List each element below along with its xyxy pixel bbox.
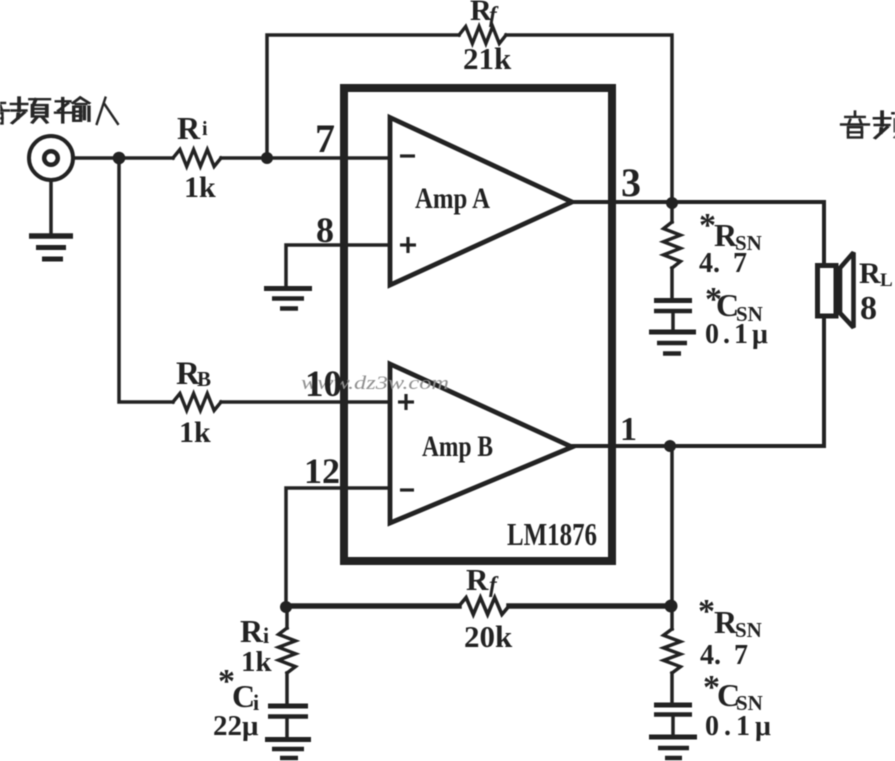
svg-text:3: 3: [621, 160, 641, 205]
svg-text:1: 1: [620, 411, 637, 448]
svg-text:f: f: [489, 572, 499, 597]
svg-text:1k: 1k: [241, 646, 273, 678]
svg-text:20k: 20k: [464, 619, 513, 654]
svg-text:B: B: [197, 367, 211, 391]
svg-text:LM1876: LM1876: [507, 516, 597, 552]
svg-text:4.: 4.: [699, 248, 720, 279]
svg-text:1k: 1k: [184, 171, 216, 204]
svg-text:0.1μ: 0.1μ: [705, 319, 772, 350]
svg-text:Amp A: Amp A: [415, 182, 490, 215]
svg-text:12: 12: [304, 451, 340, 491]
svg-text:8: 8: [316, 210, 334, 250]
svg-text:10: 10: [305, 364, 342, 405]
svg-text:0.1μ: 0.1μ: [705, 711, 776, 742]
svg-text:i: i: [263, 623, 269, 648]
svg-text:f: f: [489, 2, 499, 27]
svg-text:4.: 4.: [700, 640, 721, 671]
svg-text:R: R: [177, 110, 201, 146]
svg-text:C: C: [232, 678, 255, 714]
svg-text:SN: SN: [735, 618, 762, 642]
svg-text:7: 7: [315, 116, 335, 161]
svg-text:R: R: [240, 613, 264, 649]
svg-text:L: L: [880, 270, 893, 291]
svg-text:*: *: [698, 593, 715, 630]
svg-text:1k: 1k: [179, 416, 211, 449]
svg-text:7: 7: [733, 248, 747, 279]
svg-text:Amp B: Amp B: [422, 430, 493, 463]
svg-text:R: R: [466, 562, 489, 597]
svg-text:i: i: [202, 118, 208, 140]
svg-text:8: 8: [860, 290, 877, 327]
svg-text:R: R: [859, 257, 881, 290]
svg-text:21k: 21k: [463, 41, 512, 76]
svg-text:22μ: 22μ: [213, 710, 259, 742]
svg-text:7: 7: [734, 640, 748, 671]
